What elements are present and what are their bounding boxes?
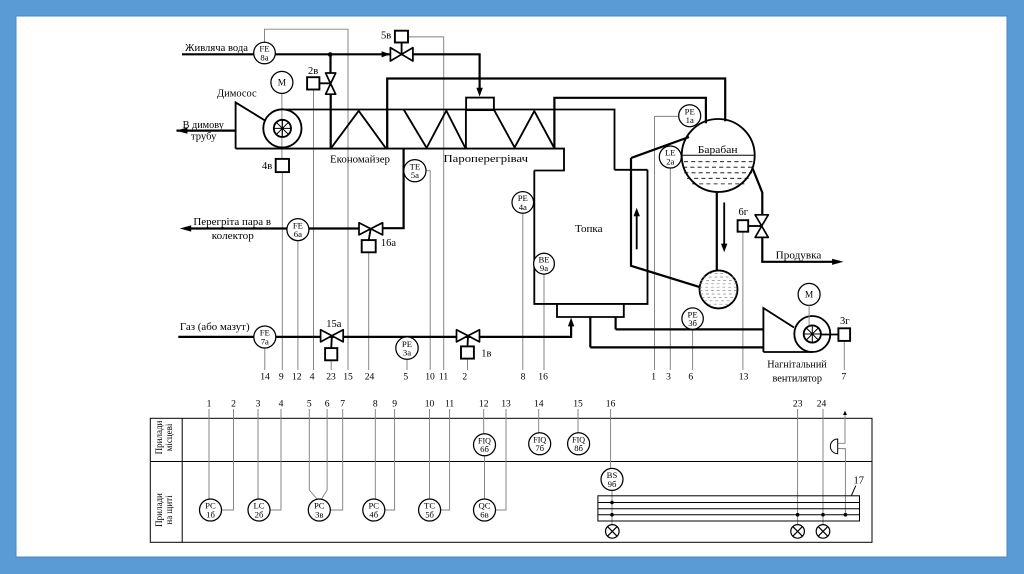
svg-text:Прилади: Прилади (154, 420, 164, 454)
svg-text:11: 11 (439, 372, 448, 383)
svg-text:Економайзер: Економайзер (330, 154, 390, 165)
svg-text:Продувка: Продувка (776, 251, 822, 262)
svg-text:12: 12 (479, 399, 489, 410)
svg-text:8б: 8б (574, 443, 583, 453)
svg-text:1а: 1а (686, 115, 694, 125)
svg-text:місцеві: місцеві (164, 423, 174, 451)
svg-text:4в: 4в (262, 161, 272, 172)
svg-text:2а: 2а (666, 156, 674, 166)
svg-text:3б: 3б (688, 318, 697, 328)
svg-text:Пароперегрівач: Пароперегрівач (444, 154, 529, 165)
svg-text:6: 6 (325, 399, 330, 410)
svg-text:6б: 6б (480, 444, 489, 454)
svg-text:2: 2 (462, 372, 467, 383)
svg-text:14: 14 (534, 399, 544, 410)
svg-text:24: 24 (365, 372, 375, 383)
svg-text:1в: 1в (481, 348, 491, 359)
svg-text:на щиті: на щиті (164, 495, 174, 525)
svg-text:2: 2 (231, 399, 236, 410)
svg-text:7а: 7а (261, 336, 269, 346)
svg-text:3: 3 (256, 399, 261, 410)
svg-text:В димову: В димову (183, 120, 225, 131)
svg-text:8а: 8а (260, 52, 268, 62)
svg-text:2в: 2в (308, 66, 318, 77)
svg-text:4б: 4б (369, 509, 378, 519)
svg-text:7: 7 (340, 399, 345, 410)
svg-text:15: 15 (573, 399, 583, 410)
svg-text:5б: 5б (425, 509, 434, 519)
svg-text:16: 16 (606, 399, 616, 410)
svg-text:23: 23 (326, 372, 336, 383)
svg-text:вентилятор: вентилятор (773, 373, 823, 384)
svg-text:Газ (або мазут): Газ (або мазут) (180, 322, 250, 333)
svg-text:9: 9 (279, 372, 284, 383)
svg-text:13: 13 (739, 372, 749, 383)
svg-text:М: М (805, 291, 814, 301)
svg-text:6: 6 (688, 372, 693, 383)
svg-text:15а: 15а (326, 319, 342, 330)
svg-text:7: 7 (841, 372, 846, 383)
svg-text:1: 1 (207, 399, 212, 410)
svg-text:колектор: колектор (212, 231, 254, 242)
svg-text:3в: 3в (315, 509, 323, 519)
svg-text:Прилади: Прилади (154, 493, 164, 527)
svg-text:Живляча вода: Живляча вода (185, 43, 248, 54)
svg-text:11: 11 (445, 399, 454, 410)
svg-text:17: 17 (854, 476, 865, 487)
svg-text:Барабан: Барабан (698, 145, 738, 156)
svg-text:16: 16 (538, 372, 548, 383)
svg-text:24: 24 (817, 399, 827, 410)
svg-text:Нагнітальний: Нагнітальний (767, 359, 827, 370)
svg-text:1: 1 (651, 372, 656, 383)
svg-text:13: 13 (501, 399, 511, 410)
svg-text:6г: 6г (739, 207, 749, 218)
svg-text:2б: 2б (255, 509, 264, 519)
svg-text:5а: 5а (411, 170, 419, 180)
svg-text:9б: 9б (608, 479, 617, 489)
svg-text:3: 3 (666, 372, 671, 383)
svg-text:4: 4 (279, 399, 284, 410)
svg-text:3а: 3а (403, 348, 411, 358)
svg-text:23: 23 (793, 399, 803, 410)
svg-text:Топка: Топка (575, 224, 603, 235)
svg-text:Димосос: Димосос (217, 89, 257, 100)
svg-text:4а: 4а (519, 202, 527, 212)
svg-text:7б: 7б (535, 443, 544, 453)
svg-text:16а: 16а (381, 238, 397, 249)
svg-text:14: 14 (260, 372, 270, 383)
svg-text:12: 12 (292, 372, 302, 383)
svg-text:трубу: трубу (191, 132, 217, 143)
svg-text:3г: 3г (840, 316, 850, 327)
svg-text:Перегріта пара в: Перегріта пара в (193, 217, 271, 228)
svg-text:5: 5 (403, 372, 408, 383)
svg-text:5в: 5в (381, 31, 391, 42)
svg-text:9а: 9а (540, 263, 548, 273)
svg-text:1б: 1б (206, 509, 215, 519)
svg-text:8: 8 (373, 399, 378, 410)
svg-text:8: 8 (521, 372, 526, 383)
svg-text:5: 5 (307, 399, 312, 410)
svg-text:10: 10 (425, 399, 435, 410)
svg-text:9: 9 (392, 399, 397, 410)
svg-text:6а: 6а (294, 229, 302, 239)
svg-text:10: 10 (425, 372, 435, 383)
svg-text:15: 15 (343, 372, 353, 383)
svg-text:4: 4 (310, 372, 315, 383)
svg-text:6в: 6в (480, 509, 488, 519)
svg-text:М: М (278, 79, 287, 89)
